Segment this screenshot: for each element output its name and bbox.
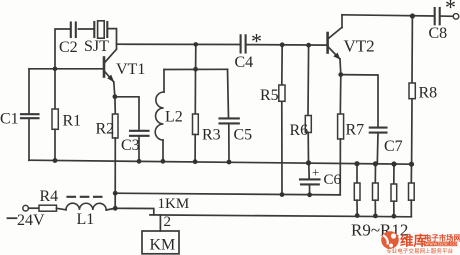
svg-text:R6: R6: [290, 122, 309, 139]
svg-text:SJT: SJT: [84, 38, 109, 55]
svg-text:R4: R4: [40, 188, 59, 205]
svg-text:R5: R5: [260, 87, 279, 104]
svg-text:24V: 24V: [17, 212, 45, 229]
svg-text:1KM: 1KM: [158, 196, 190, 212]
svg-text:R1: R1: [63, 113, 82, 130]
svg-text:+: +: [312, 165, 319, 180]
svg-text:C4: C4: [235, 54, 254, 71]
svg-text:*: *: [445, 0, 456, 20]
svg-text:R8: R8: [419, 85, 438, 102]
svg-text:2: 2: [164, 214, 172, 230]
svg-text:KM: KM: [150, 237, 176, 254]
svg-text:R2: R2: [96, 121, 115, 138]
svg-text:C2: C2: [59, 39, 78, 56]
svg-text:L1: L1: [77, 211, 95, 228]
svg-text:R3: R3: [202, 127, 221, 144]
svg-text:C1: C1: [0, 111, 19, 128]
svg-text:C5: C5: [234, 127, 253, 144]
svg-text:WWW.DZSC.COM: WWW.DZSC.COM: [425, 242, 460, 247]
svg-text:C7: C7: [384, 138, 403, 155]
svg-text:C6: C6: [324, 172, 342, 188]
svg-text:*: *: [251, 29, 262, 54]
svg-text:专业电子交易网上服务平台: 专业电子交易网上服务平台: [386, 247, 454, 255]
svg-text:C8: C8: [429, 25, 448, 42]
svg-text:L2: L2: [165, 109, 183, 126]
svg-text:VT2: VT2: [344, 37, 375, 56]
svg-text:C3: C3: [121, 137, 140, 154]
svg-text:VT1: VT1: [116, 61, 145, 78]
svg-text:R7: R7: [346, 122, 365, 139]
